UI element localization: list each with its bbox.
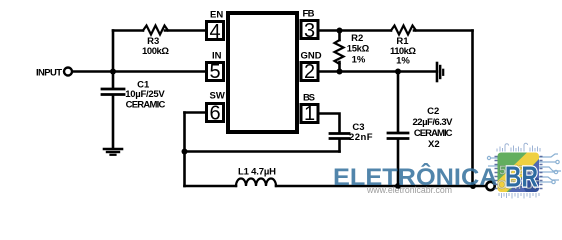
svg-text:4: 4 <box>209 21 220 43</box>
svg-text:C2: C2 <box>427 106 439 117</box>
svg-text:IN: IN <box>212 51 222 62</box>
svg-text:3: 3 <box>304 20 315 42</box>
svg-text:EN: EN <box>210 10 223 21</box>
svg-text:22nF: 22nF <box>349 132 373 143</box>
svg-text:22µF/6.3V: 22µF/6.3V <box>413 117 454 128</box>
svg-text:1%: 1% <box>352 55 366 66</box>
svg-text:100kΩ: 100kΩ <box>142 46 169 57</box>
svg-text:10µF/25V: 10µF/25V <box>125 89 165 100</box>
svg-text:SW: SW <box>210 91 225 102</box>
svg-text:CERAMIC: CERAMIC <box>126 100 166 111</box>
svg-text:BS: BS <box>303 93 315 104</box>
svg-text:www.eletronicabr.com: www.eletronicabr.com <box>366 185 452 196</box>
svg-text:CERAMIC: CERAMIC <box>414 128 453 139</box>
svg-text:5: 5 <box>209 61 220 83</box>
svg-text:6: 6 <box>209 103 220 125</box>
svg-text:GND: GND <box>301 51 322 62</box>
svg-text:X2: X2 <box>428 139 440 150</box>
svg-text:1%: 1% <box>396 56 410 67</box>
svg-text:INPUT: INPUT <box>36 68 62 79</box>
svg-text:BR: BR <box>505 162 538 194</box>
svg-text:L1 4.7µH: L1 4.7µH <box>238 167 276 178</box>
svg-text:1: 1 <box>304 103 315 125</box>
svg-text:FB: FB <box>303 9 315 20</box>
svg-text:R2: R2 <box>351 33 363 44</box>
svg-text:2: 2 <box>304 61 315 83</box>
svg-text:15kΩ: 15kΩ <box>347 44 370 55</box>
